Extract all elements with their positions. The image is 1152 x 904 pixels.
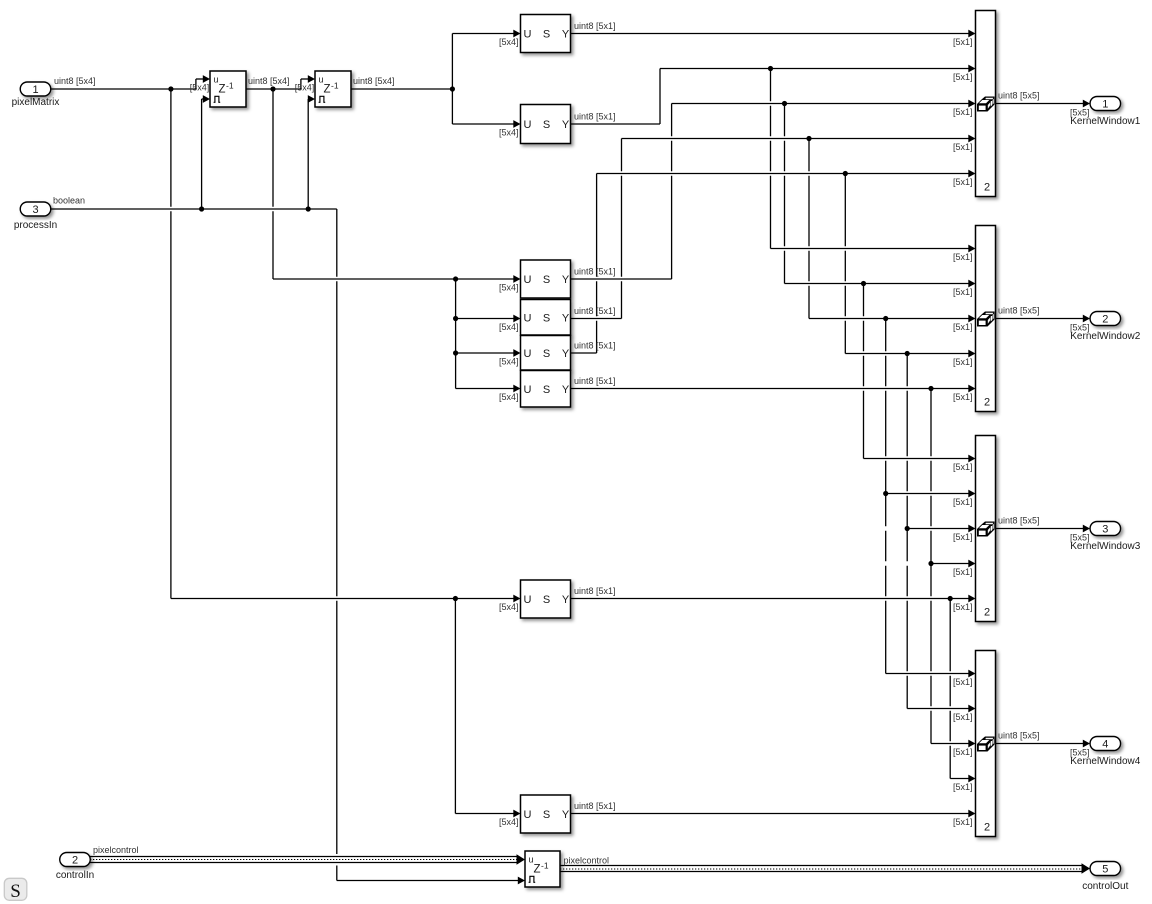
arrow into Concat2 at y=353.5: [968, 350, 975, 358]
wire to Concat3.in2: [886, 493, 969, 495]
selector block Selector5 (U S Y): [521, 336, 571, 371]
svg-text:controlOut: controlOut: [1082, 881, 1128, 892]
svg-text:[5x4]: [5x4]: [499, 283, 519, 293]
svg-text:[5x1]: [5x1]: [953, 72, 973, 82]
svg-text:[5x1]: [5x1]: [953, 462, 973, 472]
svg-text:4: 4: [1102, 739, 1108, 751]
delay block Delay2 (Z^-1): [315, 71, 351, 107]
wire Concat1 out to KernelWindow1 port: [996, 103, 1084, 105]
junction Concat3.in3 row: [905, 526, 910, 531]
svg-text:[5x4]: [5x4]: [499, 392, 519, 402]
svg-text:2: 2: [984, 397, 990, 409]
svg-text:S: S: [543, 29, 550, 41]
svg-text:[5x5]: [5x5]: [1070, 323, 1090, 333]
wire Delay1 out branch down: [272, 89, 274, 279]
svg-text:[5x1]: [5x1]: [953, 817, 973, 827]
arrow into Concat3 at y=493.5: [968, 490, 975, 498]
arrow into KernelWindow4 port: [1083, 740, 1090, 748]
wire Delay2 out riser to Selector1/Selector2: [451, 34, 453, 125]
svg-text:[5x4]: [5x4]: [499, 128, 519, 138]
svg-text:U: U: [524, 119, 532, 131]
wire Selector8 out to Concat4.in5: [571, 813, 969, 815]
outport 1 KernelWindow1: [1070, 97, 1140, 128]
svg-text:Y: Y: [562, 384, 570, 396]
wire bend into Delay2 u input: [300, 79, 302, 89]
svg-text:[5x1]: [5x1]: [953, 712, 973, 722]
wire to Concat2.in1: [771, 248, 969, 250]
svg-text:U: U: [524, 348, 532, 360]
svg-text:[5x4]: [5x4]: [499, 817, 519, 827]
bus arrow into controlOut port: [1082, 863, 1091, 874]
wire to Concat2.in2: [785, 283, 969, 285]
wire Delay1-out to Selector3 input: [273, 278, 514, 280]
wire Delay1-out feed for Selector4-6: [455, 279, 457, 389]
wire into Delay2 enable port: [307, 98, 309, 100]
wire to Concat2.in4: [845, 353, 969, 355]
wire Selector5 out: [571, 352, 597, 354]
wire to Concat4.in3: [931, 743, 969, 745]
svg-text:uint8 [5x1]: uint8 [5x1]: [574, 267, 616, 277]
svg-text:Z: Z: [324, 84, 331, 96]
arrow into Concat1 at y=68.5: [968, 65, 975, 73]
wire Concat2 out to KernelWindow2 port: [996, 318, 1084, 320]
svg-text:uint8 [5x5]: uint8 [5x5]: [998, 731, 1040, 741]
svg-text:2: 2: [1102, 314, 1108, 326]
svg-text:[5x4]: [5x4]: [499, 37, 519, 47]
svg-text:processIn: processIn: [14, 220, 57, 231]
matrix concatenate block Concat1: [976, 11, 996, 197]
wire pixelMatrix feed down to Selector8: [454, 599, 456, 814]
wire Selector2 out riser: [659, 69, 661, 125]
arrow into Selector5: [513, 349, 520, 357]
svg-text:[5x4]: [5x4]: [499, 322, 519, 332]
outport 3 KernelWindow3: [1070, 522, 1140, 553]
svg-text:S: S: [543, 312, 550, 324]
svg-text:uint8 [5x1]: uint8 [5x1]: [574, 306, 616, 316]
wire Concat4 out to KernelWindow4 port: [996, 743, 1084, 745]
wire Selector6 branch to Concat3.in4/Concat4.in3: [930, 389, 932, 744]
arrow into Delay1 u: [203, 75, 210, 83]
svg-text:uint8 [5x5]: uint8 [5x5]: [998, 91, 1040, 101]
svg-text:Y: Y: [562, 29, 570, 41]
arrow into KernelWindow3 port: [1083, 525, 1090, 533]
junction Selector5 input row: [453, 350, 458, 355]
svg-text:[5x1]: [5x1]: [953, 357, 973, 367]
arrow into Concat4 at y=743.5: [968, 740, 975, 748]
wire Selector7 branch to Concat4.in4: [949, 599, 951, 779]
svg-text:U: U: [524, 312, 532, 324]
wire to Selector1 input: [452, 33, 514, 35]
svg-text:S: S: [543, 809, 550, 821]
wire Selector3 branch to Concat3.in1: [863, 284, 865, 459]
wire Selector6 out to Concat2.in5: [571, 388, 969, 390]
svg-text:2: 2: [72, 855, 78, 867]
svg-text:[5x1]: [5x1]: [953, 287, 973, 297]
wire to Selector6 input: [456, 388, 514, 390]
wire Selector2 out: [571, 123, 661, 125]
junction Concat2.in5 row: [928, 386, 933, 391]
svg-text:controlIn: controlIn: [56, 870, 94, 881]
svg-text:1: 1: [1102, 99, 1108, 111]
svg-text:[5x1]: [5x1]: [953, 497, 973, 507]
selector block Selector8 (U S Y): [521, 795, 571, 833]
arrow into Concat3 at y=563.5: [968, 560, 975, 568]
wire Selector4 branch to Concat2.in3: [808, 139, 810, 319]
svg-text:KernelWindow4: KernelWindow4: [1070, 756, 1140, 767]
arrow into Selector4: [513, 315, 520, 323]
wire pixelMatrix to Delay1: [51, 88, 196, 90]
svg-text:KernelWindow1: KernelWindow1: [1070, 116, 1140, 127]
svg-text:1: 1: [32, 84, 38, 96]
selector block Selector2 (U S Y): [521, 105, 571, 144]
junction Concat2.in2 row: [861, 281, 866, 286]
selector block Selector7 (U S Y): [521, 580, 571, 618]
wire Selector4 out riser: [621, 139, 623, 319]
svg-text:[5x1]: [5x1]: [953, 602, 973, 612]
svg-text:S: S: [543, 274, 550, 286]
junction Selector7 input row: [453, 596, 458, 601]
svg-text:uint8 [5x5]: uint8 [5x5]: [998, 306, 1040, 316]
outport 4 KernelWindow4: [1070, 737, 1140, 768]
svg-text:3: 3: [1102, 524, 1108, 536]
svg-text:Y: Y: [562, 119, 570, 131]
arrow into Concat3 at y=598.5: [968, 595, 975, 603]
wire to Concat1.in2: [660, 68, 969, 70]
arrow into Delay3 enable: [518, 877, 525, 885]
wire bend into Delay1 u input: [195, 79, 197, 89]
svg-text:[5x5]: [5x5]: [1070, 748, 1090, 758]
junction Concat3.in4 row: [928, 561, 933, 566]
arrow into KernelWindow2 port: [1083, 315, 1090, 323]
junction Concat2.in3 row: [883, 316, 888, 321]
bus wire controlIn to Delay3 u input: [90, 857, 517, 863]
matrix concatenate block Concat2: [976, 226, 996, 412]
wire to Selector5 input: [456, 352, 514, 354]
wire processIn down to Delay3 enable: [336, 209, 338, 881]
wire to Concat4.in4: [950, 778, 969, 780]
delay block Delay1 (Z^-1): [210, 71, 246, 107]
outport 2 KernelWindow2: [1070, 312, 1140, 343]
wire to Concat3.in3: [907, 528, 969, 530]
selector block Selector1 (U S Y): [521, 15, 571, 53]
svg-text:boolean: boolean: [53, 195, 85, 205]
svg-text:[5x1]: [5x1]: [953, 532, 973, 542]
svg-text:[5x1]: [5x1]: [953, 252, 973, 262]
svg-text:U: U: [524, 274, 532, 286]
wire to Concat1.in3: [672, 103, 969, 105]
wire into Delay1 enable port: [202, 98, 204, 100]
svg-text:S: S: [543, 384, 550, 396]
wire to Concat3.in4: [931, 563, 969, 565]
wire Selector3 branch to Concat2.in2: [784, 104, 786, 284]
svg-text:U: U: [524, 29, 532, 41]
outport 5 controlOut: [1082, 862, 1128, 893]
arrow into Concat4 at y=778.5: [968, 775, 975, 783]
svg-text:2: 2: [984, 822, 990, 834]
svg-text:Y: Y: [562, 312, 570, 324]
svg-text:KernelWindow3: KernelWindow3: [1070, 541, 1140, 552]
wire Delay1 out to Delay2: [246, 88, 301, 90]
svg-text:2: 2: [984, 607, 990, 619]
svg-text:uint8 [5x5]: uint8 [5x5]: [998, 516, 1040, 526]
arrow into Concat1 at y=173.5: [968, 170, 975, 178]
svg-text:U: U: [524, 384, 532, 396]
wire Selector7 out to Concat3.in5: [571, 598, 969, 600]
delay block Delay3 (Z^-1): [525, 851, 560, 887]
wire Selector4 out: [571, 318, 622, 320]
svg-text:2: 2: [984, 182, 990, 194]
junction Concat3.in2 row: [883, 491, 888, 496]
svg-text:5: 5: [1102, 864, 1108, 876]
junction Concat1.in5 row: [843, 171, 848, 176]
arrow into Concat1 at y=33.5: [968, 30, 975, 38]
svg-text:S: S: [543, 348, 550, 360]
wire Selector5 branch to Concat2.in4: [844, 174, 846, 354]
svg-text:[5x1]: [5x1]: [953, 782, 973, 792]
svg-text:uint8 [5x1]: uint8 [5x1]: [574, 112, 616, 122]
svg-text:[5x1]: [5x1]: [953, 107, 973, 117]
svg-text:Y: Y: [562, 274, 570, 286]
wire Selector5 out riser: [596, 174, 598, 354]
wire to Concat4.in2: [907, 708, 969, 710]
svg-text:uint8 [5x1]: uint8 [5x1]: [574, 586, 616, 596]
wire to Selector2 input: [452, 123, 514, 125]
wire to Selector8 input: [455, 813, 514, 815]
selector block Selector3 (U S Y): [521, 260, 571, 298]
arrow into Concat4 at y=813.5: [968, 810, 975, 818]
arrow into Concat4 at y=708.5: [968, 705, 975, 713]
arrow into Concat2 at y=248.5: [968, 245, 975, 253]
arrow into Concat3 at y=458.5: [968, 455, 975, 463]
matrix concatenate block Concat4: [976, 651, 996, 837]
junction Delay2 out: [450, 86, 455, 91]
wire Selector2 branch to Concat2.in1: [770, 69, 772, 249]
wire pixelMatrix to Selector7 input: [171, 598, 514, 600]
wire Delay2 out to riser: [351, 88, 452, 90]
svg-text:[5x1]: [5x1]: [953, 142, 973, 152]
wire processIn to Delay3 enable: [337, 880, 519, 882]
bus arrow into Delay3 u: [517, 854, 526, 865]
svg-text:KernelWindow2: KernelWindow2: [1070, 331, 1140, 342]
svg-text:-1: -1: [226, 81, 234, 91]
arrow into Selector7: [513, 595, 520, 603]
wire pixelMatrix branch down to Selector7: [170, 89, 172, 599]
svg-text:3: 3: [32, 204, 38, 216]
arrow into Concat2 at y=388.5: [968, 385, 975, 393]
arrow into Delay2 enable: [308, 95, 315, 103]
arrow into Delay1 enable: [203, 95, 210, 103]
svg-text:uint8 [5x4]: uint8 [5x4]: [54, 76, 96, 86]
Simulink S badge: [4, 878, 27, 902]
arrow into Selector1: [513, 30, 520, 38]
matrix concatenate block Concat3: [976, 436, 996, 622]
wire processIn riser to Delay2 enable: [307, 99, 309, 209]
arrow into Selector8: [513, 810, 520, 818]
svg-text:uint8 [5x1]: uint8 [5x1]: [574, 376, 616, 386]
wire into Delay2 u port: [301, 78, 309, 80]
svg-text:[5x1]: [5x1]: [953, 747, 973, 757]
junction pixelMatrix branch: [168, 86, 173, 91]
wire processIn trunk: [51, 208, 337, 210]
junction Concat2.in4 row: [905, 351, 910, 356]
wire into Delay1 u port: [196, 78, 204, 80]
junction Selector3 input row: [453, 276, 458, 281]
arrow into Delay2 u: [308, 75, 315, 83]
wire to Concat4.in1: [886, 673, 969, 675]
arrow into Selector6: [513, 385, 520, 393]
arrow into KernelWindow1 port: [1083, 100, 1090, 108]
svg-text:[5x4]: [5x4]: [295, 83, 315, 93]
junction processIn to Delay2 enable: [306, 206, 311, 211]
arrow into Selector3: [513, 275, 520, 283]
svg-text:-1: -1: [541, 861, 549, 871]
svg-text:uint8 [5x4]: uint8 [5x4]: [353, 76, 395, 86]
svg-text:[5x4]: [5x4]: [499, 602, 519, 612]
arrow into Concat1 at y=103.5: [968, 100, 975, 108]
svg-text:-1: -1: [331, 81, 339, 91]
svg-text:[5x1]: [5x1]: [953, 392, 973, 402]
junction Concat1.in3 row: [782, 101, 787, 106]
junction Delay1 out: [270, 86, 275, 91]
svg-text:[5x4]: [5x4]: [190, 83, 210, 93]
arrow into Concat3 at y=528.5: [968, 525, 975, 533]
svg-text:[5x1]: [5x1]: [953, 322, 973, 332]
svg-text:[5x1]: [5x1]: [953, 177, 973, 187]
svg-text:U: U: [524, 594, 532, 606]
junction processIn to Delay1 enable: [199, 206, 204, 211]
wire to Concat1.in4: [622, 138, 969, 140]
wire to Concat1.in5: [597, 173, 969, 175]
wire to Concat2.in3: [809, 318, 969, 320]
wire Concat3 out to KernelWindow3 port: [996, 528, 1084, 530]
selector block Selector4 (U S Y): [521, 300, 571, 336]
svg-text:[5x4]: [5x4]: [499, 357, 519, 367]
arrow into Concat2 at y=318.5: [968, 315, 975, 323]
inport 1 pixelMatrix: [12, 82, 60, 108]
arrow into Concat4 at y=673.5: [968, 670, 975, 678]
svg-text:S: S: [10, 881, 21, 902]
svg-text:uint8 [5x1]: uint8 [5x1]: [574, 21, 616, 31]
svg-text:S: S: [543, 594, 550, 606]
arrow into Concat2 at y=283.5: [968, 280, 975, 288]
svg-text:[5x5]: [5x5]: [1070, 533, 1090, 543]
arrow into Concat1 at y=138.5: [968, 135, 975, 143]
svg-text:[5x1]: [5x1]: [953, 37, 973, 47]
svg-text:Z: Z: [534, 864, 541, 876]
svg-text:U: U: [524, 809, 532, 821]
svg-text:[5x5]: [5x5]: [1070, 108, 1090, 118]
arrow into Selector2: [513, 120, 520, 128]
svg-text:uint8 [5x4]: uint8 [5x4]: [248, 76, 290, 86]
inport 2 controlIn: [56, 853, 94, 882]
inport 3 processIn: [14, 202, 57, 231]
svg-text:S: S: [543, 119, 550, 131]
svg-text:[5x1]: [5x1]: [953, 567, 973, 577]
wire to Selector4 input: [456, 318, 514, 320]
junction Concat3.in5 row: [948, 596, 953, 601]
wire Selector5 branch to Concat3.in3/Concat4.in2: [906, 354, 908, 709]
wire Selector3 out: [571, 278, 672, 280]
selector block Selector6 (U S Y): [521, 371, 571, 408]
svg-text:pixelcontrol: pixelcontrol: [564, 855, 610, 865]
svg-text:Y: Y: [562, 594, 570, 606]
svg-text:uint8 [5x1]: uint8 [5x1]: [574, 801, 616, 811]
svg-text:pixelcontrol: pixelcontrol: [93, 845, 139, 855]
junction Concat1.in4 row: [806, 136, 811, 141]
wire processIn riser to Delay1 enable: [201, 99, 203, 209]
svg-text:Y: Y: [562, 348, 570, 360]
wire Selector3 out riser: [671, 104, 673, 280]
svg-text:Z: Z: [219, 84, 226, 96]
svg-text:pixelMatrix: pixelMatrix: [12, 97, 60, 108]
svg-text:[5x1]: [5x1]: [953, 677, 973, 687]
svg-text:uint8 [5x1]: uint8 [5x1]: [574, 341, 616, 351]
junction Concat1.in2 row: [768, 66, 773, 71]
wire Selector1 out to Concat1.in1: [571, 33, 969, 35]
wire Selector4 branch to Concat3.in2/Concat4.in1: [885, 319, 887, 674]
wire to Concat3.in1: [864, 458, 969, 460]
junction Selector4 input row: [453, 316, 458, 321]
svg-text:Y: Y: [562, 809, 570, 821]
bus wire Delay3 out to controlOut port: [560, 866, 1082, 872]
